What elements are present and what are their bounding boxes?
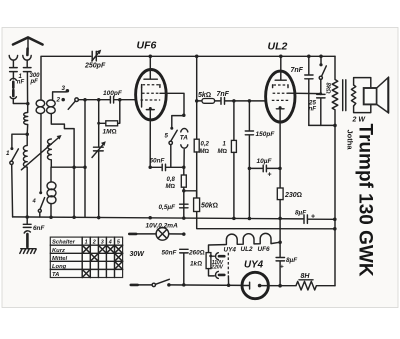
svg-text:8kΩ: 8kΩ bbox=[325, 83, 331, 95]
wire grid line UF6 bbox=[78, 99, 109, 101]
svg-text:UF6: UF6 bbox=[137, 40, 157, 52]
pin cathode bbox=[279, 106, 282, 109]
svg-text:1: 1 bbox=[85, 240, 88, 246]
capacitor 1nF bbox=[10, 68, 18, 72]
svg-text:6nF: 6nF bbox=[33, 225, 45, 232]
svg-text:0,8: 0,8 bbox=[167, 177, 176, 183]
svg-text:1: 1 bbox=[6, 150, 10, 157]
wire bbox=[309, 124, 335, 126]
grid g2 screen bbox=[273, 92, 288, 94]
wire AVC line bbox=[84, 100, 86, 217]
svg-text:Kurz: Kurz bbox=[52, 248, 65, 254]
node bbox=[25, 132, 29, 136]
grid g2 bbox=[142, 92, 160, 94]
resistor 1M bbox=[106, 121, 118, 126]
plug pins bbox=[211, 255, 215, 257]
svg-text:2: 2 bbox=[56, 97, 61, 104]
svg-text:100pF: 100pF bbox=[103, 90, 123, 97]
svg-text:MΩ: MΩ bbox=[218, 149, 228, 155]
switch wave band bbox=[75, 98, 79, 102]
svg-text:Trumpf 130 GWK: Trumpf 130 GWK bbox=[355, 124, 376, 277]
wire bbox=[51, 166, 85, 168]
svg-text:Long: Long bbox=[52, 264, 67, 270]
wire mains bbox=[169, 284, 242, 287]
grid g1 bbox=[142, 85, 160, 88]
wire rectifier cathode bbox=[279, 218, 281, 256]
svg-text:10V,0,2mA: 10V,0,2mA bbox=[146, 223, 179, 230]
capacitor 150pF bbox=[248, 101, 250, 130]
svg-text:8µF: 8µF bbox=[295, 210, 307, 217]
secondary winding bbox=[354, 78, 371, 113]
voltage selector dashed bbox=[227, 253, 229, 276]
capacitor 8uF lower bbox=[276, 257, 284, 259]
switch 5 TA bbox=[170, 127, 173, 130]
mains switch bbox=[131, 284, 138, 287]
resistor 230 bbox=[277, 188, 283, 200]
svg-text:230Ω: 230Ω bbox=[284, 192, 302, 199]
wire bbox=[12, 61, 14, 68]
svg-text:7nF: 7nF bbox=[217, 91, 230, 98]
wire screen to switch bbox=[288, 92, 321, 94]
capacitor 25nF bbox=[317, 94, 325, 98]
right rail down bbox=[334, 125, 336, 285]
svg-text:3: 3 bbox=[101, 240, 104, 246]
bus junction dots bbox=[25, 215, 29, 219]
switch 4 bbox=[39, 191, 42, 194]
pin cathode bbox=[149, 107, 152, 110]
pin anode bbox=[149, 56, 151, 79]
wire to switch 5 bbox=[172, 116, 184, 128]
spark gap arrester bbox=[10, 78, 16, 80]
grid g3 bbox=[141, 99, 161, 101]
svg-text:UY4: UY4 bbox=[224, 247, 237, 254]
svg-text:UF6: UF6 bbox=[258, 246, 271, 253]
coil L4 bbox=[47, 100, 56, 107]
capacitor 300pF bbox=[23, 68, 31, 72]
svg-text:7nF: 7nF bbox=[291, 67, 304, 74]
wire bbox=[26, 72, 28, 104]
svg-text:50kΩ: 50kΩ bbox=[201, 203, 218, 210]
node antenna junction bbox=[26, 102, 30, 106]
svg-text:250pF: 250pF bbox=[84, 63, 106, 70]
coil L1 bbox=[24, 104, 28, 135]
svg-text:50nF: 50nF bbox=[162, 250, 178, 257]
antenna bbox=[13, 38, 43, 45]
svg-text:4: 4 bbox=[108, 240, 112, 246]
svg-text:220V: 220V bbox=[210, 265, 223, 271]
node bbox=[182, 114, 186, 118]
svg-text:Schalter: Schalter bbox=[52, 240, 76, 246]
wire bbox=[13, 100, 28, 104]
resistor 0.2M bbox=[194, 139, 199, 152]
wire to 50k bbox=[184, 191, 197, 198]
trimmer capacitor bbox=[94, 147, 104, 151]
wire top bus bbox=[98, 55, 335, 57]
svg-text:1MΩ: 1MΩ bbox=[103, 129, 117, 136]
svg-text:+: + bbox=[268, 172, 272, 179]
coil L2 bbox=[23, 134, 27, 217]
X marks bbox=[82, 245, 90, 253]
svg-text:nF: nF bbox=[309, 106, 317, 113]
wire bbox=[12, 72, 14, 79]
wire bbox=[99, 100, 106, 124]
switch 1 bbox=[10, 147, 13, 150]
svg-text:2 W: 2 W bbox=[352, 117, 367, 124]
transformer core bbox=[343, 80, 346, 111]
svg-text:0,5µF: 0,5µF bbox=[159, 204, 177, 211]
coil L3 bbox=[36, 100, 45, 107]
svg-text:5: 5 bbox=[165, 133, 169, 140]
wire top bus left corner bbox=[41, 56, 91, 99]
antenna socket hooks bbox=[23, 56, 31, 61]
resistor 1M second bbox=[233, 101, 235, 140]
TA sockets bbox=[181, 129, 188, 132]
output transformer primary bbox=[332, 56, 338, 125]
svg-text:TA: TA bbox=[52, 272, 59, 278]
wire bbox=[12, 134, 27, 147]
node cathode junction bbox=[148, 166, 152, 170]
svg-text:MΩ: MΩ bbox=[200, 149, 210, 155]
svg-text:TA: TA bbox=[180, 135, 188, 142]
switch table bbox=[50, 237, 122, 277]
svg-text:150pF: 150pF bbox=[256, 131, 276, 138]
capacitor 6nF to ground bbox=[26, 217, 28, 224]
ground bbox=[21, 248, 36, 250]
svg-text:UL2: UL2 bbox=[268, 41, 288, 53]
wire screen out bbox=[160, 93, 184, 114]
coil L6 variable bbox=[50, 167, 52, 217]
svg-text:UY4: UY4 bbox=[244, 260, 264, 271]
wire jog bbox=[51, 114, 74, 217]
wire grid line from bus bbox=[195, 55, 199, 59]
svg-text:nF: nF bbox=[17, 80, 25, 86]
pin anode bbox=[280, 56, 282, 80]
variable capacitor 250pF bbox=[92, 51, 96, 61]
coil L5 variable bbox=[48, 139, 52, 167]
svg-text:0,2: 0,2 bbox=[201, 142, 210, 148]
resistor 50k bbox=[194, 198, 200, 212]
main HT bus bbox=[13, 217, 303, 219]
node bbox=[97, 98, 101, 102]
svg-text:Mittel: Mittel bbox=[52, 256, 68, 262]
svg-text:pF: pF bbox=[30, 79, 39, 85]
grid g1 bbox=[273, 85, 288, 88]
speaker bbox=[364, 88, 377, 104]
svg-text:8H: 8H bbox=[301, 273, 311, 280]
svg-text:3: 3 bbox=[62, 85, 66, 92]
svg-text:Jotha: Jotha bbox=[346, 130, 355, 151]
switch tone bbox=[319, 55, 323, 59]
svg-text:MΩ: MΩ bbox=[166, 184, 176, 190]
svg-text:260Ω: 260Ω bbox=[188, 250, 205, 257]
grid g3 bbox=[272, 99, 289, 101]
svg-text:UL2: UL2 bbox=[241, 246, 254, 253]
svg-text:50nF: 50nF bbox=[150, 158, 166, 165]
svg-text:8µF: 8µF bbox=[286, 257, 298, 264]
svg-text:1kΩ: 1kΩ bbox=[190, 261, 202, 268]
svg-text:30W: 30W bbox=[130, 251, 146, 258]
svg-text:2: 2 bbox=[92, 240, 96, 246]
wire bbox=[26, 61, 28, 68]
heater chain bbox=[224, 233, 280, 244]
svg-text:10µF: 10µF bbox=[257, 158, 273, 165]
